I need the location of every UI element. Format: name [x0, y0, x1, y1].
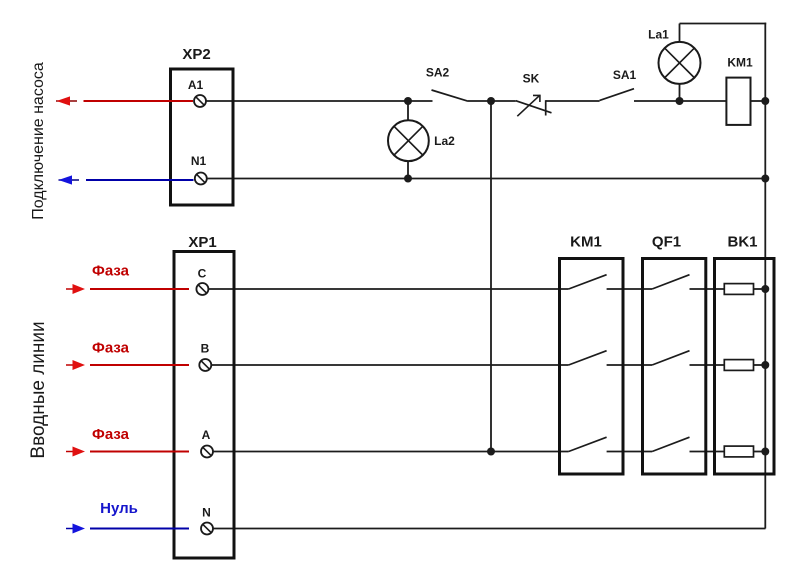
- svg-text:N1: N1: [191, 154, 207, 168]
- svg-text:C: C: [198, 267, 207, 281]
- svg-text:SA2: SA2: [426, 66, 450, 80]
- svg-text:XP2: XP2: [182, 46, 210, 63]
- svg-text:KM1: KM1: [727, 56, 753, 70]
- svg-text:XP1: XP1: [188, 234, 216, 251]
- svg-text:Фаза: Фаза: [92, 263, 130, 280]
- svg-text:A: A: [202, 428, 211, 442]
- svg-text:BK1: BK1: [727, 234, 757, 251]
- svg-text:SK: SK: [523, 72, 540, 86]
- svg-text:SA1: SA1: [613, 68, 637, 82]
- svg-text:B: B: [201, 342, 210, 356]
- svg-text:Нуль: Нуль: [100, 500, 138, 517]
- svg-text:QF1: QF1: [652, 234, 681, 251]
- svg-text:La1: La1: [648, 28, 669, 42]
- svg-text:Подключение насоса: Подключение насоса: [30, 62, 47, 220]
- svg-text:KM1: KM1: [570, 234, 602, 251]
- svg-text:N: N: [202, 506, 211, 520]
- svg-text:Фаза: Фаза: [92, 340, 130, 357]
- svg-text:Фаза: Фаза: [92, 426, 130, 443]
- svg-text:La2: La2: [434, 134, 455, 148]
- svg-text:Вводные линии: Вводные линии: [28, 321, 49, 458]
- svg-text:A1: A1: [188, 78, 204, 92]
